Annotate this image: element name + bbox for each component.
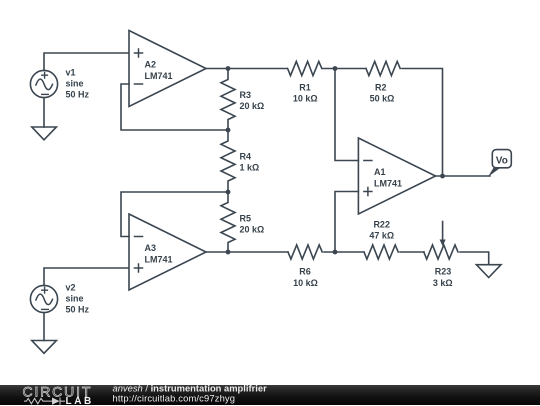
- svg-text:20 kΩ: 20 kΩ: [240, 101, 265, 111]
- wire R1 to R2: [323, 68, 366, 70]
- node A3out/R5/R6: [226, 250, 231, 255]
- label R6 10 kO: [293, 266, 318, 288]
- svg-text:50 kΩ: 50 kΩ: [370, 93, 395, 103]
- svg-text:1 kΩ: 1 kΩ: [240, 163, 260, 173]
- wire A1 output to Vo: [436, 175, 491, 177]
- resistor R6: [288, 245, 322, 259]
- resistor R22: [364, 245, 398, 259]
- svg-text:10 kΩ: 10 kΩ: [293, 93, 318, 103]
- resistor R1: [288, 61, 322, 75]
- svg-text:10 kΩ: 10 kΩ: [293, 278, 318, 288]
- label R2 50 kO: [370, 82, 395, 103]
- svg-text:R6: R6: [299, 266, 311, 276]
- svg-text:47 kΩ: 47 kΩ: [369, 230, 394, 240]
- label R5 20 kO: [240, 214, 265, 235]
- svg-text:50 Hz: 50 Hz: [66, 89, 90, 99]
- wire A1 plus input to R6/R22 node: [335, 192, 358, 253]
- label A1 LM741: [374, 167, 402, 189]
- CircuitLab logo: resistor zigzag and diode: [24, 397, 65, 404]
- footer bar: [0, 385, 540, 405]
- svg-text:http://circuitlab.com/c97zhyg: http://circuitlab.com/c97zhyg: [113, 392, 236, 403]
- voltage source v2: [30, 285, 57, 312]
- svg-text:LAB: LAB: [66, 396, 94, 406]
- voltage source v1: [30, 70, 57, 97]
- label A3 LM741: [145, 243, 173, 265]
- svg-text:20 kΩ: 20 kΩ: [240, 225, 265, 235]
- wire R1/R2 node to A1 minus input: [335, 69, 358, 161]
- resistor R4: [221, 130, 235, 192]
- svg-text:R1: R1: [299, 82, 311, 92]
- node R3/R4/A2fb: [226, 128, 231, 133]
- op-amp A3: [129, 214, 206, 290]
- svg-text:A3: A3: [145, 243, 157, 253]
- svg-text:R23: R23: [435, 266, 452, 276]
- svg-text:A1: A1: [374, 167, 386, 177]
- wire v2 bottom to ground: [43, 313, 45, 341]
- potentiometer R23: [424, 222, 458, 260]
- label R4 1 kO: [240, 152, 260, 173]
- label A2 LM741: [145, 59, 173, 81]
- svg-text:R2: R2: [375, 82, 387, 92]
- label v1 sine 50 Hz: [66, 67, 90, 99]
- wire v1 bottom to ground: [43, 98, 45, 127]
- svg-text:R5: R5: [240, 214, 252, 224]
- svg-text:R22: R22: [373, 220, 390, 230]
- svg-text:sine: sine: [66, 78, 84, 88]
- wire R2 right down to A1 output node: [402, 69, 443, 177]
- ground (right): [476, 265, 501, 278]
- wire R23 to ground: [460, 252, 489, 265]
- svg-text:LM741: LM741: [374, 178, 402, 188]
- wire R22 to R23: [400, 251, 424, 253]
- svg-text:v2: v2: [66, 282, 76, 292]
- label R22 47 kO: [369, 220, 394, 241]
- op-amp A1: [358, 138, 435, 214]
- wire v2 top to A3 plus input: [44, 268, 129, 286]
- node R4/R5/A3fb: [226, 190, 231, 195]
- flag Vo: [488, 150, 511, 177]
- wire A2 feedback to R3/R4 node: [121, 84, 228, 130]
- label v2 sine 50 Hz: [66, 282, 90, 314]
- wire A2 output rail: [206, 68, 287, 70]
- wire A3 output rail: [206, 251, 288, 253]
- svg-text:Vo: Vo: [496, 155, 508, 166]
- svg-text:v1: v1: [66, 67, 76, 77]
- resistor R2: [366, 61, 400, 75]
- op-amp A2: [129, 31, 206, 107]
- svg-text:LM741: LM741: [145, 71, 173, 81]
- node R6/R22/A1plus: [333, 250, 338, 255]
- node A2out/R3/R1: [226, 66, 231, 71]
- label R3 20 kO: [240, 90, 265, 111]
- svg-text:sine: sine: [66, 293, 84, 303]
- svg-text:R4: R4: [240, 152, 252, 162]
- wire R6 to R22: [324, 251, 364, 253]
- node R1/R2/A1minus: [333, 66, 338, 71]
- svg-text:A2: A2: [145, 59, 157, 69]
- svg-text:50 Hz: 50 Hz: [66, 304, 90, 314]
- label R23 3 kO: [433, 266, 453, 288]
- resistor R5: [221, 192, 235, 252]
- ground (below v2): [32, 341, 57, 354]
- svg-text:R3: R3: [240, 90, 252, 100]
- resistor R3: [221, 69, 235, 131]
- svg-text:LM741: LM741: [145, 254, 173, 264]
- wire A3 feedback to R4/R5 node: [121, 192, 228, 237]
- svg-text:3 kΩ: 3 kΩ: [433, 278, 453, 288]
- node A1out/R2: [440, 174, 445, 179]
- wire v1 top to A2 plus input: [44, 53, 129, 70]
- label R1 10 kO: [293, 82, 318, 103]
- ground (below v1): [32, 127, 57, 140]
